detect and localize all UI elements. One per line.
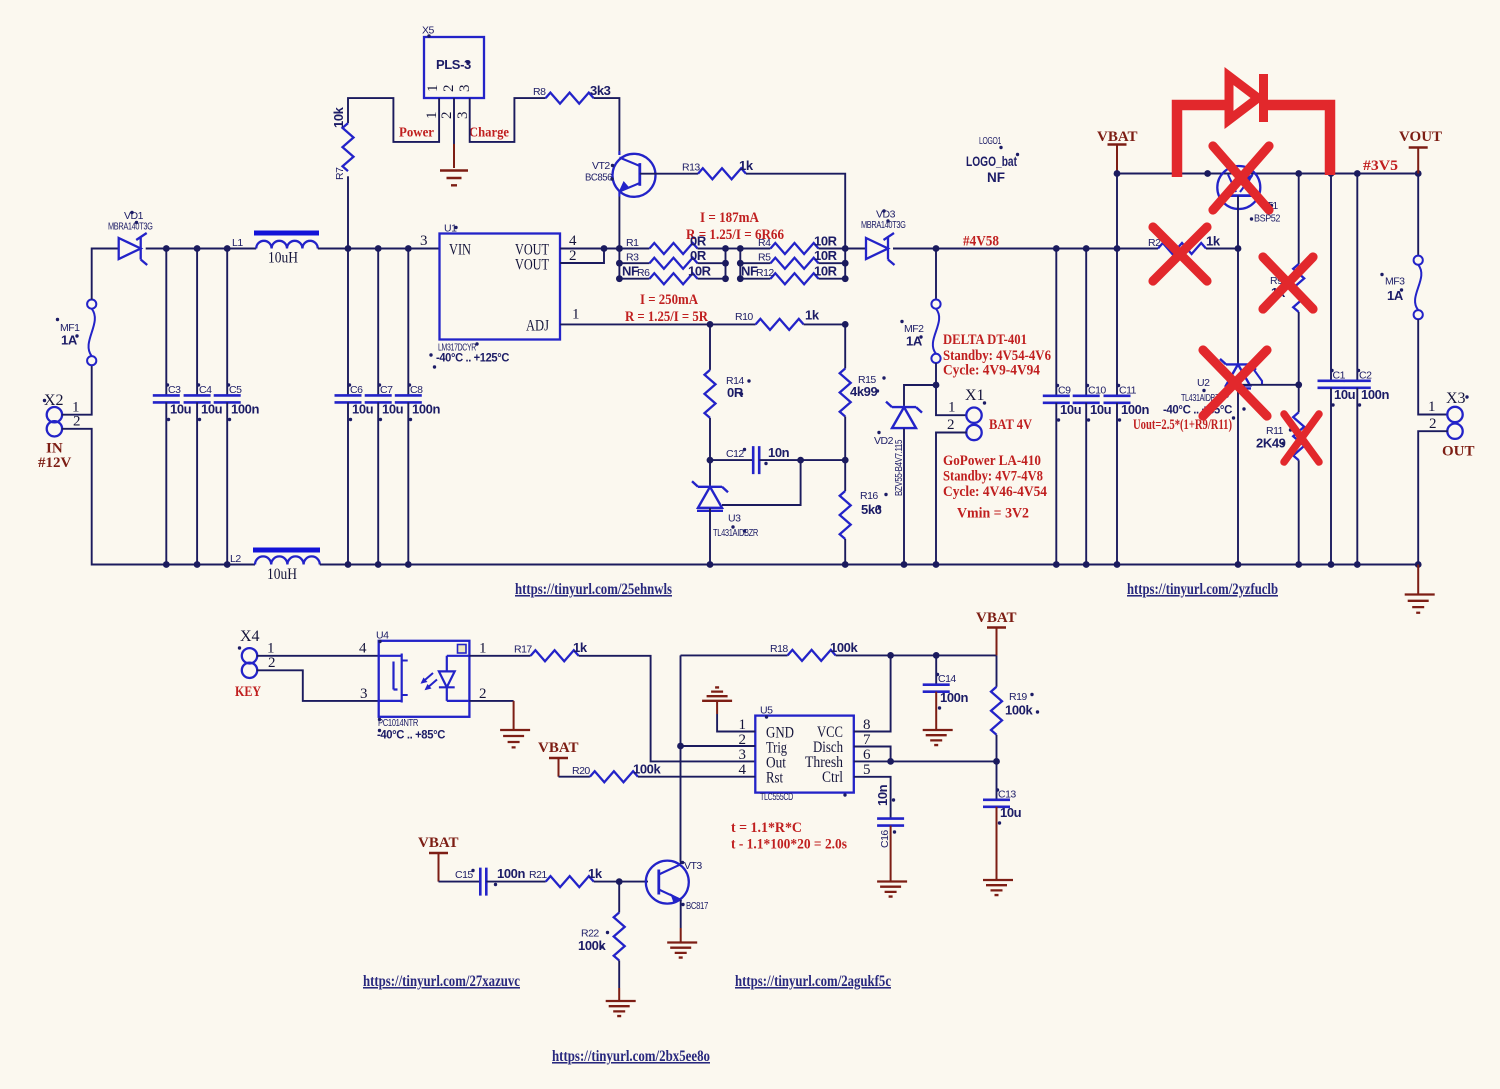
svg-text:VBAT: VBAT [1097, 129, 1138, 145]
resistor R4 10R [740, 234, 845, 255]
capacitor C1 10u [1318, 174, 1356, 565]
svg-text:2: 2 [73, 414, 81, 430]
timer U5 TLC555CD [755, 705, 854, 804]
svg-text:10R: 10R [814, 234, 838, 249]
junction bottom x=710 [707, 561, 714, 568]
svg-text:#12V: #12V [38, 455, 72, 471]
svg-text:1k: 1k [588, 866, 603, 881]
resistor R7 10k [331, 106, 354, 180]
ground X5 [440, 171, 468, 186]
fuse MF2 1A [900, 249, 940, 364]
svg-text:VOUT: VOUT [1399, 129, 1442, 145]
svg-text:10R: 10R [688, 264, 712, 279]
svg-text:R10: R10 [735, 311, 753, 323]
wire ADJ row [560, 323, 710, 325]
wire C15 to R21 [486, 881, 545, 883]
svg-text:100k: 100k [633, 762, 661, 777]
svg-text:10u: 10u [1334, 387, 1356, 402]
svg-text:C12: C12 [726, 448, 744, 460]
svg-text:Standby: 4V7-4V8: Standby: 4V7-4V8 [943, 469, 1043, 485]
svg-text:R5: R5 [758, 252, 771, 264]
svg-text:#3V5: #3V5 [1363, 158, 1398, 174]
diode VD3 MBRA140T3G [861, 209, 906, 266]
ground C16 [877, 826, 907, 897]
svg-text:I = 187mA: I = 187mA [700, 210, 759, 226]
svg-text:MBRA140T3G: MBRA140T3G [108, 221, 153, 233]
resistor R5 10R [740, 248, 845, 269]
svg-text:C7: C7 [380, 384, 393, 396]
capacitor C16 10n [875, 784, 904, 848]
svg-text:10u: 10u [1090, 402, 1112, 417]
svg-text:BZV55-B4V7.115: BZV55-B4V7.115 [893, 440, 905, 496]
svg-text:VD2: VD2 [874, 435, 894, 447]
capacitor C8 100n [395, 249, 441, 565]
connector X3 OUT [1428, 390, 1475, 460]
resistor R6 10R NF [619, 264, 725, 285]
node C2 top [1354, 170, 1361, 177]
svg-text:10u: 10u [1060, 402, 1082, 417]
wire VBAT to R20 [559, 776, 590, 778]
wire X5.2 to ground [453, 98, 455, 144]
svg-text:0R: 0R [690, 234, 707, 249]
svg-text:t - 1.1*100*20 = 2.0s: t - 1.1*100*20 = 2.0s [731, 837, 847, 853]
node C3 bottom [163, 561, 170, 568]
svg-text:3: 3 [457, 85, 473, 93]
capacitor C2 100n [1344, 174, 1390, 565]
node R14 top [707, 321, 714, 328]
svg-text:GoPower LA-410: GoPower LA-410 [943, 453, 1041, 469]
svg-text:Charge: Charge [469, 125, 509, 140]
svg-text:1k: 1k [739, 158, 754, 173]
ground C14 [923, 692, 953, 745]
svg-text:MF3: MF3 [1385, 276, 1405, 288]
svg-text:X2: X2 [44, 392, 64, 409]
svg-text:R18: R18 [770, 643, 788, 655]
node C5 [224, 245, 231, 252]
svg-text:TLC555CD: TLC555CD [760, 791, 794, 803]
resistor R12 10R NF [740, 264, 845, 285]
capacitor C14 100n [923, 655, 969, 709]
wire MF1 to rail [92, 249, 119, 300]
node divider [1295, 381, 1302, 388]
fuse MF3 1A [1380, 256, 1422, 320]
resistor R17 1k [514, 640, 588, 661]
resistor R15 4k99 [840, 324, 886, 460]
svg-text:10uH: 10uH [268, 250, 298, 267]
wire R2 to BSP52 base [1206, 248, 1238, 250]
node C1 top [1328, 170, 1335, 177]
resistor R19 100k [991, 655, 1039, 761]
svg-text:C6: C6 [350, 384, 363, 396]
connector X4 KEY [235, 628, 276, 700]
capacitor C12 10n [707, 445, 846, 474]
svg-text:1: 1 [425, 85, 441, 93]
resistor R9 1k (crossed out) [1270, 174, 1304, 385]
svg-text:1k: 1k [805, 308, 820, 323]
svg-text:10uH: 10uH [267, 566, 297, 583]
svg-text:LOGO1: LOGO1 [979, 135, 1001, 147]
svg-text:3: 3 [420, 233, 428, 249]
svg-text:MBRA140T3G: MBRA140T3G [861, 219, 906, 231]
svg-text:VBAT: VBAT [538, 740, 579, 756]
capacitor C11 100n [1104, 249, 1150, 565]
svg-text:R19: R19 [1009, 691, 1027, 703]
junction bottom x=1357.3 [1354, 561, 1361, 568]
resistor R13 1k [682, 158, 754, 179]
svg-text:t = 1.1*R*C: t = 1.1*R*C [731, 820, 802, 836]
junction bottom x=904 [901, 561, 908, 568]
wire VD3 to R2 [893, 248, 1158, 250]
zener VD2 BZV55-B4V7 [874, 385, 936, 565]
svg-text:100n: 100n [231, 402, 259, 417]
bus mid-right [739, 249, 741, 279]
resistor R3 0R [619, 248, 725, 269]
resistor R10 1k [710, 308, 845, 330]
svg-text:10u: 10u [1000, 805, 1022, 820]
node C5 bottom [224, 561, 231, 568]
svg-text:VT2: VT2 [592, 160, 610, 172]
wire X4.2 to U4.3 [257, 670, 379, 701]
svg-text:C1: C1 [1333, 370, 1346, 382]
svg-text:C9: C9 [1058, 385, 1071, 397]
svg-text:L1: L1 [232, 237, 243, 249]
resistor R21 1k [529, 866, 603, 887]
resistor R20 100k [572, 762, 661, 783]
wire bus link [726, 248, 741, 250]
svg-text:VOUT: VOUT [515, 257, 549, 274]
wire MF3 to X3 [1418, 319, 1448, 414]
node pin8 branch [887, 652, 894, 659]
wire R20 to U5 Rst [638, 776, 755, 778]
capacitor C15 100n [455, 866, 525, 896]
capacitor C6 10u [335, 249, 374, 565]
resistor R14 0R [705, 324, 751, 460]
wire R7 to rail [347, 176, 349, 248]
wire U1 VOUT4 [560, 248, 619, 250]
capacitor C7 10u [365, 249, 404, 565]
svg-text:ADJ: ADJ [526, 318, 549, 335]
shunt U3 TL431AIDBZR [692, 460, 759, 564]
svg-text:1: 1 [572, 307, 580, 323]
svg-text:Uout=2.5*(1+R9/R11): Uout=2.5*(1+R9/R11) [1133, 417, 1232, 433]
wire R17 to U5 Out [579, 656, 756, 762]
connector X2 [38, 392, 81, 471]
capacitor C5 100n [214, 249, 260, 565]
svg-text:R1: R1 [626, 237, 639, 249]
capacitor C13 10u [983, 761, 1022, 824]
svg-text:KEY: KEY [235, 684, 261, 700]
wire Disch to Thresh [854, 747, 891, 762]
junction bottom x=1086.2 [1083, 561, 1090, 568]
node X1 branch [933, 382, 940, 389]
svg-text:100n: 100n [1361, 387, 1389, 402]
R18 row wire [681, 654, 788, 656]
svg-text:C16: C16 [879, 830, 891, 848]
svg-text:10n: 10n [875, 784, 890, 806]
wire L1 to U1 VIN [318, 248, 440, 250]
svg-text:R16: R16 [860, 490, 878, 502]
svg-text:100n: 100n [940, 690, 968, 705]
node C12 right [797, 457, 804, 464]
logo block [966, 135, 1019, 185]
svg-text:https://tinyurl.com/2yzfuclb: https://tinyurl.com/2yzfuclb [1127, 581, 1278, 598]
node left of BSP52 [1204, 170, 1211, 177]
svg-text:10k: 10k [331, 106, 346, 128]
svg-text:-40°C .. +125°C: -40°C .. +125°C [436, 351, 510, 365]
resistor R22 100k [578, 882, 625, 988]
wire X2.1 to MF1 [62, 366, 92, 415]
svg-text:VBAT: VBAT [976, 610, 1017, 626]
svg-text:2: 2 [441, 85, 457, 93]
svg-text:X4: X4 [240, 628, 260, 645]
svg-text:100k: 100k [1005, 703, 1033, 718]
svg-text:U5: U5 [760, 705, 773, 717]
node MF2 [933, 245, 940, 252]
node base column [1235, 245, 1242, 252]
wire VCC pin8 [854, 655, 891, 731]
wire X2.2 to bottom rail [62, 429, 255, 565]
svg-text:BAT 4V: BAT 4V [989, 417, 1032, 433]
transistor VT2 BC856 [585, 151, 656, 197]
svg-text:R6: R6 [637, 267, 650, 279]
capacitor C4 10u [184, 249, 223, 565]
svg-text:NF: NF [987, 170, 1005, 185]
svg-text:R13: R13 [682, 162, 700, 174]
ground VT3 [667, 928, 697, 958]
svg-text:Cycle: 4V46-4V54: Cycle: 4V46-4V54 [943, 484, 1047, 500]
node VBAT rail [1114, 170, 1121, 177]
capacitor C3 10u [153, 249, 192, 565]
ground R22 [606, 988, 636, 1016]
svg-text:TL431AIDBZR: TL431AIDBZR [713, 527, 759, 539]
svg-text:C8: C8 [410, 384, 423, 396]
bus mid-left [725, 249, 727, 279]
svg-text:C2: C2 [1359, 370, 1372, 382]
wire MF2 to X1 [935, 363, 937, 385]
svg-text:R20: R20 [572, 765, 590, 777]
power flag VBAT low [418, 835, 459, 882]
svg-text:2: 2 [1429, 416, 1437, 432]
svg-text:1k: 1k [1206, 234, 1221, 249]
svg-text:I = 250mA: I = 250mA [640, 292, 698, 308]
svg-text:3: 3 [455, 112, 471, 120]
junction bottom x=1298.7 [1295, 561, 1302, 568]
junction bottom x=408.3 [405, 561, 412, 568]
svg-text:C4: C4 [199, 384, 212, 396]
svg-text:1: 1 [1428, 399, 1436, 415]
svg-text:R = 1.25/I = 5R: R = 1.25/I = 5R [625, 309, 708, 325]
svg-text:R4: R4 [758, 237, 771, 249]
node U2 anode row [1235, 381, 1242, 388]
node C4 bottom [194, 561, 201, 568]
svg-text:R3: R3 [626, 252, 639, 264]
svg-text:VT3: VT3 [684, 860, 702, 872]
capacitor C9 10u [1043, 249, 1082, 565]
svg-text:BSP52: BSP52 [1254, 213, 1281, 225]
svg-text:2: 2 [569, 248, 577, 264]
svg-text:https://tinyurl.com/25ehnwls: https://tinyurl.com/25ehnwls [515, 581, 672, 598]
bus junctions [616, 260, 623, 267]
junction bottom x=936 [933, 561, 940, 568]
wire Ctrl to C16 [854, 777, 891, 819]
node C12 left [707, 457, 714, 464]
svg-text:R8: R8 [533, 86, 546, 98]
bus right group [844, 249, 846, 279]
svg-text:LOGO_bat: LOGO_bat [966, 153, 1017, 169]
node Disch/Thresh [887, 758, 894, 765]
node R7/C6 [345, 245, 352, 252]
red X over R2 [1153, 227, 1207, 281]
node C11/VBAT [1114, 245, 1121, 252]
svg-text:1k: 1k [573, 640, 588, 655]
power flag VBAT top [1097, 129, 1138, 174]
wire VBAT column to #4V58 [1116, 174, 1118, 249]
svg-text:4: 4 [739, 762, 747, 778]
wire R13 to right bus [746, 174, 845, 249]
wire to VD3 [845, 248, 866, 250]
svg-text:#4V58: #4V58 [963, 234, 999, 250]
svg-text:U3: U3 [728, 513, 741, 525]
svg-text:4: 4 [359, 641, 367, 657]
svg-text:-40°C .. +85°C: -40°C .. +85°C [377, 728, 446, 742]
fuse MF1 1A [56, 300, 96, 366]
inductor L2 10uH [230, 550, 320, 583]
red X over R9 [1263, 257, 1313, 309]
svg-text:3k3: 3k3 [590, 83, 611, 98]
svg-text:10R: 10R [814, 264, 838, 279]
svg-text:Cycle: 4V9-4V94: Cycle: 4V9-4V94 [943, 363, 1040, 379]
node C3 [163, 245, 170, 252]
svg-text:L2: L2 [230, 553, 241, 565]
svg-text:DELTA DT-401: DELTA DT-401 [943, 332, 1027, 348]
svg-text:R7: R7 [334, 167, 346, 180]
junction bottom x=845.2 [842, 561, 849, 568]
wire VT3 emitter to ground [680, 900, 682, 928]
svg-text:Ctrl: Ctrl [822, 769, 843, 786]
node C8 [405, 245, 412, 252]
wire BSP52 base down [1237, 196, 1239, 249]
svg-text:C11: C11 [1119, 385, 1137, 397]
svg-text:U4: U4 [376, 630, 389, 642]
node VOUT join [601, 245, 608, 252]
IC U1 LM317DCYR [429, 223, 560, 369]
svg-text:C14: C14 [938, 673, 956, 685]
svg-text:X3: X3 [1446, 390, 1466, 407]
wire VT3 collector up [680, 862, 682, 865]
resistor R1 0R [619, 234, 725, 255]
node C9 [1053, 245, 1060, 252]
svg-text:10R: 10R [814, 248, 838, 263]
svg-text:4k99: 4k99 [850, 384, 877, 399]
junction bottom x=1418.2 [1415, 561, 1422, 568]
node R22 top [616, 878, 623, 885]
power flag VOUT [1399, 129, 1442, 174]
svg-text:OUT: OUT [1442, 444, 1475, 460]
wire VT2 emitter to rail [618, 197, 620, 249]
wire ref loop [722, 460, 801, 505]
optocoupler U4 PC1014NTR [376, 630, 469, 742]
resistor R16 5k6 [840, 460, 888, 564]
junction bottom x=348 [345, 561, 352, 568]
svg-text:10n: 10n [768, 445, 790, 460]
ground C13 [983, 807, 1013, 895]
U2 ref row [1238, 384, 1299, 386]
svg-text:100k: 100k [830, 640, 858, 655]
resistor R18 100k [770, 640, 858, 661]
transistor VT3 BC817 [646, 860, 709, 912]
junction bottom x=1056.3 [1053, 561, 1060, 568]
node VOUT corner [1415, 170, 1422, 177]
svg-text:1: 1 [424, 112, 440, 120]
ground U4.2 [500, 730, 530, 747]
svg-text:100n: 100n [1121, 402, 1149, 417]
ground U5 GND (up) [702, 687, 755, 731]
wire Trig row [681, 745, 756, 747]
red X over BSP52 [1213, 146, 1269, 210]
svg-text:5k6: 5k6 [861, 502, 882, 517]
wire X5.3 to R8 [470, 98, 546, 142]
svg-text:3: 3 [360, 686, 368, 702]
connector X1 BAT [936, 385, 1032, 565]
svg-text:C15: C15 [455, 869, 473, 881]
wire VOUT col to MF3 [1417, 174, 1419, 256]
hand-drawn red diode [1177, 74, 1330, 177]
node C7 [375, 245, 382, 252]
svg-text:2K49: 2K49 [1256, 436, 1286, 451]
svg-text:R21: R21 [529, 869, 547, 881]
svg-text:0R: 0R [690, 248, 707, 263]
svg-text:1: 1 [948, 400, 956, 416]
svg-text:Vmin = 3V2: Vmin = 3V2 [957, 506, 1029, 522]
wire X5.1 to R7 [348, 98, 439, 142]
bus left group [618, 249, 620, 279]
bottom rail [320, 564, 1418, 566]
node C14 branch [933, 652, 940, 659]
svg-text:10u: 10u [352, 402, 374, 417]
svg-text:3: 3 [739, 747, 747, 763]
node R15 top [842, 321, 849, 328]
svg-text:BC817: BC817 [686, 900, 708, 912]
svg-text:C5: C5 [229, 384, 242, 396]
wire R21 to VT3 base [594, 881, 648, 883]
svg-text:2: 2 [479, 686, 487, 702]
svg-text:1: 1 [479, 641, 487, 657]
svg-text:PLS-3: PLS-3 [436, 57, 471, 72]
wire U1 VOUT2 [560, 249, 604, 264]
junction bottom x=1117 [1114, 561, 1121, 568]
junction bottom x=1238 [1235, 561, 1242, 568]
svg-text:C13: C13 [998, 789, 1016, 801]
svg-text:https://tinyurl.com/27xazuvc: https://tinyurl.com/27xazuvc [363, 973, 520, 990]
Thresh row [854, 760, 997, 762]
svg-text:Rst: Rst [766, 770, 783, 787]
node VT2 emitter/bus [616, 245, 623, 252]
bus junctions [616, 245, 623, 252]
svg-text:VBAT: VBAT [418, 835, 459, 851]
svg-text:R17: R17 [514, 644, 532, 656]
node C10 [1083, 245, 1090, 252]
wire base column to U2 [1237, 249, 1239, 365]
junction bottom x=378.2 [375, 561, 382, 568]
vertical R18/Trig column [680, 655, 682, 861]
svg-text:https://tinyurl.com/2bx5ee8o: https://tinyurl.com/2bx5ee8o [552, 1048, 710, 1065]
svg-text:10u: 10u [201, 402, 223, 417]
wire X3.2 to bottom rail [1418, 431, 1448, 564]
resistor R2 1k (crossed out) [1148, 234, 1221, 255]
svg-text:10u: 10u [170, 402, 192, 417]
wire VT2 base to R13 [640, 173, 698, 175]
node R15/R16 [842, 457, 849, 464]
